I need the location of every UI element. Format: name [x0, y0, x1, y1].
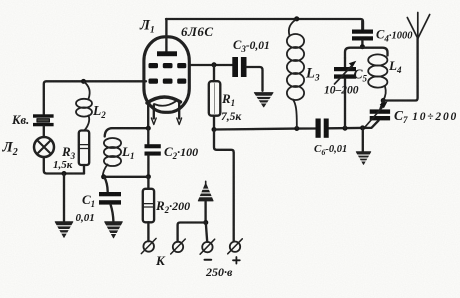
- svg-text:С4·1000: С4·1000: [376, 28, 413, 44]
- node L4/C7/antenna: [381, 98, 386, 103]
- antenna: [417, 13, 419, 39]
- capacitor C7 variable: [380, 101, 383, 110]
- capacitor C5 variable: [344, 58, 346, 67]
- wire crystal to lamp: [43, 126, 45, 137]
- terminal K: [143, 241, 154, 252]
- svg-text:7,5к: 7,5к: [221, 111, 242, 123]
- capacitor C1: [104, 177, 108, 192]
- tube Л1 envelope: [144, 37, 189, 113]
- svg-text:К: К: [155, 253, 166, 268]
- node ground tap right: [360, 125, 365, 130]
- capacitor C3: [232, 57, 238, 77]
- tube heater lead 2 with arrow: [178, 103, 180, 119]
- capacitor C2: [147, 128, 149, 144]
- node C5 bottom: [343, 126, 348, 131]
- wire supply drop to +250: [214, 130, 234, 242]
- capacitor C6: [316, 119, 321, 138]
- svg-text:Кв.: Кв.: [11, 113, 29, 127]
- ground G5: [356, 152, 370, 165]
- wire screen bus: [191, 64, 233, 66]
- inductor L3: [289, 19, 297, 36]
- resistor R1: [213, 65, 215, 81]
- svg-text:С6-0,01: С6-0,01: [314, 143, 347, 157]
- svg-text:С3-0,01: С3-0,01: [233, 38, 270, 54]
- node top bus / L3: [294, 16, 299, 21]
- label plus: [233, 257, 240, 264]
- tube screen grid dashes: [149, 63, 187, 68]
- node L3 bottom: [294, 126, 299, 131]
- svg-text:0,01: 0,01: [76, 212, 95, 224]
- wire bottom bus: [214, 129, 316, 130]
- tube anode plate: [157, 51, 177, 56]
- tube cathode arc: [147, 97, 181, 103]
- svg-text:6Л6С: 6Л6С: [181, 24, 214, 39]
- resistor R2: [147, 177, 149, 189]
- capacitor C4: [361, 21, 363, 30]
- svg-text:1,5к: 1,5к: [53, 159, 73, 171]
- node cathode bottom: [146, 174, 151, 179]
- svg-text:С2·100: С2·100: [164, 144, 198, 161]
- ground G2: [105, 222, 123, 238]
- wire to ground right: [362, 128, 364, 152]
- ground G3: [254, 93, 273, 107]
- node grid/L2 junction: [81, 79, 86, 84]
- ground G4 above minus junction: [198, 183, 213, 201]
- node C1 tap: [101, 174, 106, 179]
- wire R3 bottom: [83, 165, 85, 174]
- label minus: [205, 259, 212, 261]
- crystal Кв: [33, 114, 54, 117]
- wire antenna feeder: [383, 39, 417, 101]
- wire to ground: [63, 174, 65, 222]
- inductor L2: [84, 81, 90, 98]
- lamp Л2 indicator: [34, 137, 54, 157]
- wire control grid bus: [44, 81, 146, 114]
- node cathode top: [146, 126, 151, 131]
- tube cathode lead: [147, 104, 149, 129]
- inductor L1: [105, 128, 149, 136]
- node screen/R1: [212, 62, 217, 67]
- wire minus junction: [204, 202, 206, 223]
- tube control grid dashes: [149, 79, 187, 84]
- terminal plus: [230, 242, 240, 252]
- inductor L4: [368, 54, 387, 65]
- ground G1: [55, 222, 73, 238]
- wire lamp to R3 bottom row: [44, 157, 84, 174]
- svg-text:R2·200: R2·200: [155, 198, 190, 215]
- resistor R3: [79, 131, 89, 166]
- svg-text:10–200: 10–200: [324, 85, 359, 97]
- tube heater arc: [154, 102, 176, 106]
- svg-text:250·в: 250·в: [205, 265, 233, 279]
- terminal minus: [202, 242, 212, 252]
- wire anode top bus: [166, 19, 363, 30]
- terminal minus2: [173, 242, 183, 252]
- wire cathode row: [103, 176, 149, 178]
- wire tank top box: [345, 48, 388, 58]
- tube heater lead 1 with arrow: [153, 105, 155, 119]
- node R1 bottom: [212, 127, 217, 132]
- tube anode lead: [165, 19, 167, 52]
- node ground tap: [62, 171, 67, 176]
